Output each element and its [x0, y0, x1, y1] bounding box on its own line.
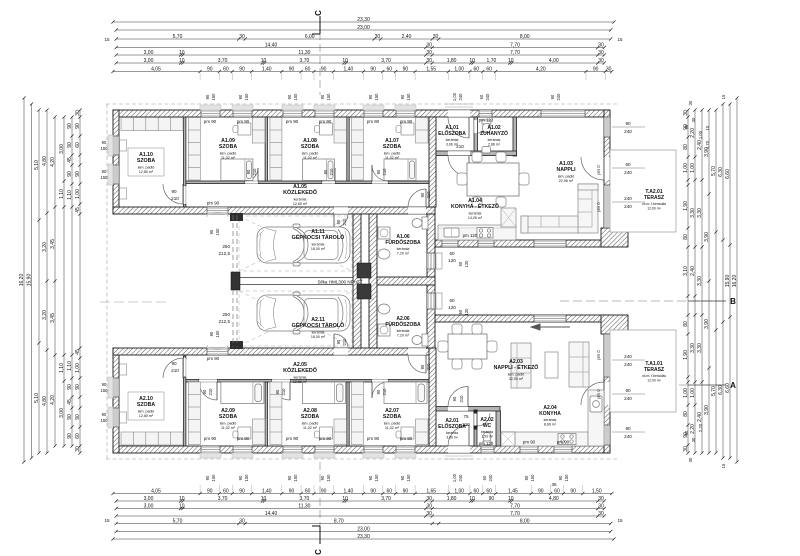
- section marker C top: [312, 10, 323, 34]
- svg-text:30: 30: [691, 117, 696, 122]
- furniture: dining chair A1 5: [457, 173, 467, 185]
- terrace T.A1.01 callout lines: [612, 360, 645, 394]
- wall: A2.07-A2.01 partition thick: [429, 348, 436, 446]
- svg-text:60: 60: [482, 475, 487, 480]
- door opening: A2.09 door: [199, 380, 217, 383]
- right wall lower window callout line: [612, 431, 645, 433]
- door opening: A1.01 entry: [448, 110, 470, 117]
- window: A1.03 right wall large window: [604, 185, 610, 228]
- svg-text:12,80 m²: 12,80 m²: [139, 170, 154, 174]
- svg-text:10: 10: [469, 496, 475, 502]
- svg-text:3,45: 3,45: [50, 239, 56, 249]
- svg-text:18,00 m²: 18,00 m²: [311, 247, 326, 251]
- door arc: garage A1.11 door: [334, 214, 348, 228]
- door arc: A2.02 WC door: [477, 413, 490, 426]
- svg-text:60: 60: [387, 66, 393, 72]
- window: courtyard west wall window 2: [427, 293, 435, 309]
- furniture: tall cabinet/fridge A1.04: [501, 208, 516, 227]
- svg-text:75: 75: [463, 414, 469, 419]
- svg-text:90: 90: [320, 475, 325, 480]
- wall: A1.08|A1.07 partition: [347, 117, 349, 183]
- svg-text:3,20: 3,20: [42, 310, 48, 320]
- svg-text:90: 90: [238, 94, 243, 99]
- svg-text:60: 60: [479, 94, 484, 99]
- svg-text:pm 0: pm 0: [596, 202, 601, 212]
- svg-text:90: 90: [171, 189, 177, 194]
- room label A2.01 ELOSZOBA: [438, 418, 466, 439]
- svg-text:1,00: 1,00: [690, 388, 696, 398]
- svg-text:210: 210: [208, 388, 213, 396]
- svg-text:90: 90: [625, 426, 631, 431]
- door opening: A1.10 door: [184, 186, 186, 204]
- svg-text:90: 90: [239, 66, 245, 72]
- svg-text:90: 90: [400, 475, 405, 480]
- svg-text:8,00: 8,00: [520, 34, 530, 40]
- svg-text:1,00: 1,00: [690, 163, 696, 173]
- svg-text:16,20: 16,20: [19, 274, 25, 287]
- wall stub below WC door: [474, 426, 478, 430]
- sill: top wall bedroom window 5: [363, 105, 384, 110]
- svg-text:60: 60: [486, 66, 492, 72]
- room label A1.09 SZOBA: [219, 138, 237, 160]
- svg-text:30: 30: [426, 50, 432, 56]
- furniture: cabinet A1.10 left 1: [120, 140, 127, 151]
- svg-text:3,30: 3,30: [697, 343, 703, 353]
- svg-text:150: 150: [101, 388, 109, 393]
- svg-text:lam. padló: lam. padló: [384, 151, 401, 155]
- door opening: A1.06 bathroom door: [408, 207, 426, 214]
- svg-text:16,20: 16,20: [732, 275, 738, 288]
- wall: A2.09|A2.08 partition: [265, 380, 267, 446]
- wall: A2 unit north wall east part: [435, 315, 609, 322]
- svg-text:4,20: 4,20: [50, 157, 56, 167]
- svg-text:A1.05: A1.05: [293, 184, 307, 190]
- svg-text:60: 60: [223, 488, 229, 494]
- svg-text:210: 210: [426, 191, 431, 199]
- svg-text:150: 150: [244, 93, 249, 101]
- sill: bottom wall bedroom window 2: [232, 453, 253, 458]
- svg-text:60: 60: [458, 261, 463, 266]
- svg-text:1,10: 1,10: [59, 363, 65, 373]
- svg-text:lam. padló: lam. padló: [302, 421, 319, 425]
- wall: garage/corridor south wall: [113, 348, 435, 355]
- svg-text:30: 30: [433, 34, 439, 40]
- dimension row bottom 14,40/7,70: [115, 511, 606, 518]
- furniture: wardrobe column A1.09: [188, 118, 200, 181]
- svg-text:3,00: 3,00: [59, 144, 65, 154]
- svg-text:11,30: 11,30: [298, 503, 310, 509]
- furniture: wardrobe column A2.09: [188, 382, 200, 445]
- svg-text:240: 240: [624, 196, 632, 201]
- svg-text:150: 150: [101, 146, 109, 151]
- svg-text:kerámia: kerámia: [294, 376, 307, 380]
- svg-text:2,20: 2,20: [690, 424, 696, 434]
- door arc: A2.07 door: [372, 382, 388, 398]
- window: A1.04 kitchen window 2: [478, 240, 494, 247]
- door opening: A2.06 bathroom door: [408, 348, 426, 355]
- svg-text:60: 60: [449, 251, 455, 256]
- svg-text:3,30: 3,30: [697, 208, 703, 218]
- svg-text:150: 150: [215, 330, 220, 338]
- svg-text:90: 90: [336, 219, 341, 224]
- svg-text:60: 60: [625, 162, 631, 167]
- furniture: wardrobe column A2.08: [270, 382, 282, 445]
- svg-text:60: 60: [486, 488, 492, 494]
- svg-text:A1.09: A1.09: [221, 138, 235, 144]
- furniture: desk A2.08: [315, 427, 333, 439]
- svg-text:12,60 m²: 12,60 m²: [293, 380, 308, 384]
- fixture: stove A1.04: [477, 228, 493, 239]
- furniture: cabinet A2.10 left 2: [120, 412, 127, 423]
- door arc: A1.08 door: [322, 168, 335, 181]
- dimension row top 23,30: [111, 17, 615, 24]
- window: A2.04 kitchen window 1: [520, 446, 538, 453]
- witness lines above bottom fine dim row: [200, 485, 583, 492]
- window: top wall bedroom window 4: [315, 110, 334, 117]
- svg-text:A2.08: A2.08: [303, 408, 317, 414]
- door opening: garage A2.11 door: [334, 348, 348, 355]
- furniture: tall cabinet A2.09: [252, 419, 265, 445]
- svg-text:90: 90: [593, 66, 599, 72]
- dimension row top 14,40/30/7,70/30: [115, 42, 606, 49]
- room label A1.11 GEPKOCSI TAROLO: [292, 229, 345, 251]
- door opening: garage A1.11 door: [334, 207, 348, 214]
- svg-text:210: 210: [329, 168, 334, 176]
- svg-text:30: 30: [598, 50, 604, 56]
- svg-text:4,05: 4,05: [151, 66, 161, 72]
- svg-text:210: 210: [342, 338, 347, 346]
- svg-text:45: 45: [67, 399, 73, 405]
- svg-text:8,00: 8,00: [520, 518, 530, 524]
- svg-text:90: 90: [684, 124, 689, 129]
- door arc: A2.08 door: [272, 382, 290, 400]
- svg-text:A1.11: A1.11: [311, 229, 325, 235]
- svg-text:30: 30: [683, 110, 689, 116]
- svg-text:1,10: 1,10: [67, 190, 73, 200]
- svg-text:90: 90: [336, 339, 341, 344]
- room label A2.05 KOZLEKEDO: [283, 362, 317, 384]
- svg-text:1,00: 1,00: [683, 163, 689, 173]
- car in garage A2.11: [257, 292, 350, 334]
- room label A2.04 KONYHA: [539, 405, 561, 426]
- dimension row bottom 3,00/10/11,30: [115, 503, 606, 510]
- wall: left exterior lower: [113, 348, 119, 453]
- room label A2.08 SZOBA: [301, 408, 319, 430]
- window: corridor A2.05 window: [207, 348, 228, 355]
- svg-text:4,80: 4,80: [42, 156, 48, 166]
- svg-text:KÖZLEKEDŐ: KÖZLEKEDŐ: [283, 189, 317, 196]
- wall: Silka HML300 divider between garages: [240, 278, 353, 285]
- window: top wall bedroom window 3: [283, 110, 302, 117]
- furniture: desk A1.08: [315, 123, 333, 135]
- svg-text:60: 60: [449, 298, 455, 303]
- svg-text:90: 90: [75, 414, 81, 420]
- svg-text:90: 90: [684, 430, 689, 435]
- fixture: toilet A2.02: [483, 432, 491, 445]
- wall: right exterior upper: [604, 110, 610, 247]
- svg-text:210: 210: [459, 395, 464, 403]
- svg-text:pm 90: pm 90: [367, 436, 380, 441]
- svg-text:150: 150: [101, 175, 109, 180]
- svg-text:SZOBA: SZOBA: [383, 414, 401, 420]
- window: A1.04 kitchen window 1: [442, 240, 458, 247]
- svg-text:1,00: 1,00: [452, 473, 457, 482]
- svg-text:lam. padló: lam. padló: [220, 151, 237, 155]
- door opening: A1.01 to kitchen: [448, 151, 470, 156]
- svg-text:212,5: 212,5: [219, 319, 231, 324]
- garage door A2.11 dashed: [233, 290, 237, 347]
- svg-text:90: 90: [570, 488, 576, 494]
- svg-text:lam. padló: lam. padló: [138, 165, 155, 169]
- furniture: coffee table A2.03: [545, 352, 558, 378]
- svg-text:90: 90: [376, 169, 381, 174]
- door opening: A1.08 door: [322, 181, 335, 184]
- svg-text:3,00: 3,00: [144, 496, 154, 502]
- svg-text:90: 90: [452, 396, 457, 401]
- wall: A1 rooms-corridor seg1: [186, 181, 245, 184]
- furniture: tall cabinet A1.09: [252, 118, 265, 144]
- svg-text:3,30: 3,30: [690, 343, 696, 353]
- dimension col right 3,90: [704, 108, 711, 454]
- door arc: garage A2.11 door: [334, 334, 348, 348]
- door arc: A1.07 door: [372, 165, 388, 181]
- svg-text:1,00: 1,00: [683, 388, 689, 398]
- svg-text:pm 90: pm 90: [286, 119, 299, 124]
- svg-text:90: 90: [75, 384, 81, 390]
- svg-text:240: 240: [624, 354, 632, 359]
- svg-text:10: 10: [261, 58, 267, 64]
- dimension col left 15,90 outer: [26, 102, 33, 459]
- room label A1.04 KONYHA-ETKEZO: [451, 198, 499, 220]
- svg-text:90: 90: [538, 488, 544, 494]
- wall: A2 rooms-corridor seg2: [217, 380, 272, 383]
- svg-text:A2.10: A2.10: [139, 396, 153, 402]
- svg-text:7,20 m²: 7,20 m²: [397, 251, 410, 255]
- window: left wall A1.10 window 1: [113, 136, 119, 155]
- svg-text:WC: WC: [483, 423, 492, 429]
- svg-text:1,55: 1,55: [426, 66, 436, 72]
- svg-text:120: 120: [464, 308, 469, 316]
- dimension row bottom 3,00/10/3,70 x3 etc: [115, 496, 606, 503]
- dimension col left 16,20: [19, 96, 26, 463]
- svg-text:15: 15: [104, 518, 110, 523]
- svg-text:90: 90: [524, 475, 529, 480]
- svg-text:GÉPKOCSI TÁROLÓ: GÉPKOCSI TÁROLÓ: [292, 233, 345, 241]
- svg-text:30: 30: [426, 503, 432, 509]
- svg-text:60: 60: [223, 66, 229, 72]
- svg-text:150: 150: [101, 418, 109, 423]
- svg-text:lam. padló: lam. padló: [558, 174, 575, 178]
- svg-text:150: 150: [530, 474, 535, 482]
- dimension row bottom fine windows: [111, 488, 613, 495]
- sill: bottom wall bedroom window 1: [200, 453, 221, 458]
- svg-text:12,80 m²: 12,80 m²: [139, 414, 154, 418]
- fixture: toilet A2.06: [412, 334, 428, 346]
- svg-text:212,5: 212,5: [219, 251, 231, 256]
- svg-text:NAPPLI - ÉTKEZŐ: NAPPLI - ÉTKEZŐ: [494, 363, 539, 371]
- svg-text:5,10: 5,10: [34, 160, 40, 170]
- svg-text:60: 60: [75, 433, 81, 439]
- room label T.A1.01 TERASZ: [642, 361, 666, 382]
- svg-text:1,00: 1,00: [454, 488, 464, 494]
- section line B: [560, 297, 736, 306]
- door arc: A2.01 entry door: [448, 425, 469, 446]
- svg-text:A1.10: A1.10: [139, 152, 153, 158]
- furniture: sofa A2.03 no2: [569, 342, 589, 387]
- terrace T.A1.01 outline: [610, 330, 676, 412]
- dimension col left 4,20: [50, 115, 57, 447]
- door arc: A2.01 to living: [448, 387, 468, 407]
- svg-text:32,00 m²: 32,00 m²: [509, 377, 524, 381]
- svg-text:3,90: 3,90: [704, 232, 710, 242]
- svg-text:90: 90: [420, 364, 425, 369]
- svg-text:10: 10: [342, 496, 348, 502]
- window: left wall A2.10 window 1: [113, 378, 119, 397]
- sill: top wall bedroom window 6: [395, 105, 416, 110]
- room label A1.01 ELOSZOBA: [438, 125, 466, 146]
- svg-text:15: 15: [721, 463, 726, 468]
- svg-text:3,30: 3,30: [690, 208, 696, 218]
- svg-text:pm 90: pm 90: [237, 436, 250, 441]
- svg-text:4,00: 4,00: [549, 58, 559, 64]
- garage door A1.11 dashed: [233, 215, 237, 272]
- svg-text:pm 90: pm 90: [204, 119, 217, 124]
- svg-text:A2.11: A2.11: [311, 317, 325, 323]
- svg-text:A1.08: A1.08: [303, 138, 317, 144]
- svg-text:30: 30: [75, 110, 81, 116]
- svg-text:90: 90: [67, 171, 73, 177]
- furniture: dining chair A2 5: [438, 341, 448, 352]
- svg-text:90: 90: [238, 475, 243, 480]
- wall stub above WC door: [474, 410, 478, 414]
- svg-text:90: 90: [275, 389, 280, 394]
- svg-text:240: 240: [458, 474, 463, 482]
- sill: corridor A2.05 window: [207, 345, 228, 349]
- svg-text:FÜRDŐSZOBA: FÜRDŐSZOBA: [385, 239, 421, 246]
- wall: A2 rooms-corridor seg3: [290, 380, 372, 383]
- roof overhang dashed outline: [106, 104, 617, 459]
- svg-text:210: 210: [382, 168, 387, 176]
- svg-text:90: 90: [625, 121, 631, 126]
- svg-text:210: 210: [426, 363, 431, 371]
- svg-text:90: 90: [368, 475, 373, 480]
- furniture: dining table A2.03: [448, 334, 487, 359]
- window: A2.03 north window large: [534, 315, 566, 322]
- svg-text:pm 90: pm 90: [319, 119, 332, 124]
- svg-text:pm 120: pm 120: [479, 441, 494, 446]
- svg-text:240: 240: [624, 434, 632, 439]
- svg-text:SZOBA: SZOBA: [219, 144, 237, 150]
- dimension row bottom 5,70/30/8,70/8,00: [115, 518, 613, 525]
- svg-text:pm 90: pm 90: [319, 436, 332, 441]
- svg-text:45: 45: [75, 207, 81, 213]
- svg-text:60: 60: [458, 309, 463, 314]
- furniture: sofa A2.03 no1: [511, 343, 531, 388]
- pillar: garage door south: [230, 341, 243, 349]
- wall: A1.09|A1.08 partition: [265, 117, 267, 183]
- svg-text:90: 90: [289, 66, 295, 72]
- svg-text:1,00: 1,00: [75, 189, 81, 199]
- svg-text:10: 10: [179, 50, 185, 56]
- svg-text:90: 90: [420, 192, 425, 197]
- svg-text:210: 210: [171, 368, 179, 373]
- svg-text:11,02 m²: 11,02 m²: [303, 426, 318, 430]
- svg-text:15,90: 15,90: [26, 274, 32, 287]
- window: A2.03 right wall large window: [604, 334, 610, 377]
- svg-text:90: 90: [67, 384, 73, 390]
- svg-text:150: 150: [293, 93, 298, 101]
- svg-text:3,00: 3,00: [59, 408, 65, 418]
- svg-text:240: 240: [624, 129, 632, 134]
- svg-text:2,40: 2,40: [402, 34, 412, 40]
- svg-text:1,00: 1,00: [452, 92, 457, 101]
- sill: bottom wall bedroom window 6: [395, 453, 416, 458]
- svg-text:15: 15: [617, 518, 623, 523]
- svg-text:150: 150: [406, 93, 411, 101]
- window: A2.03 right wall small window: [604, 425, 610, 445]
- dimension col right 6,60: [725, 102, 732, 459]
- entrance arrow in courtyard: [531, 324, 570, 330]
- svg-text:120: 120: [448, 305, 456, 310]
- fixture: washer A1.06: [378, 227, 390, 239]
- svg-text:3,00: 3,00: [144, 503, 154, 509]
- door opening: A2.01 entry: [448, 446, 470, 453]
- svg-text:6,00: 6,00: [305, 34, 315, 40]
- svg-text:4,20: 4,20: [50, 395, 56, 405]
- sill: left wall A1.10 window 2: [108, 164, 113, 185]
- svg-text:SZOBA: SZOBA: [219, 414, 237, 420]
- wall: top exterior: [113, 110, 610, 117]
- svg-text:80: 80: [683, 144, 689, 150]
- sill: corridor A1.05 window: [207, 213, 228, 217]
- svg-text:lam. padló: lam. padló: [138, 409, 155, 413]
- window: A2.04 kitchen window 2: [554, 446, 572, 453]
- svg-text:lam. padló: lam. padló: [384, 421, 401, 425]
- window sill: courtyard window 1: [436, 253, 442, 269]
- svg-text:240: 240: [485, 93, 490, 101]
- window sill: courtyard window 2: [436, 293, 442, 309]
- svg-text:pm 90: pm 90: [237, 119, 250, 124]
- svg-text:250: 250: [222, 244, 230, 249]
- svg-text:NAPPLI: NAPPLI: [556, 167, 576, 173]
- dimension col left 3,00/1,10: [59, 115, 66, 447]
- svg-text:30: 30: [598, 496, 604, 502]
- svg-text:150: 150: [374, 93, 379, 101]
- svg-text:1,70: 1,70: [705, 140, 710, 149]
- svg-text:10: 10: [469, 58, 475, 64]
- svg-text:1,80: 1,80: [447, 496, 457, 502]
- dimension row bottom 23,00: [115, 526, 613, 533]
- svg-text:90: 90: [67, 414, 73, 420]
- svg-text:A1.07: A1.07: [385, 138, 399, 144]
- fixture: toilet A1.02: [482, 120, 491, 133]
- svg-text:30: 30: [426, 496, 432, 502]
- svg-text:SZOBA: SZOBA: [137, 402, 155, 408]
- room label A1.07 SZOBA: [383, 138, 401, 160]
- svg-text:90: 90: [202, 389, 207, 394]
- svg-text:30: 30: [75, 446, 81, 452]
- svg-text:210: 210: [382, 388, 387, 396]
- porch steps at A1 entry: [445, 104, 473, 107]
- room label A1.08 SZOBA: [301, 138, 319, 160]
- svg-text:pm 90: pm 90: [367, 119, 380, 124]
- fixture: washbasin A1.02: [482, 147, 491, 154]
- svg-text:pm 90: pm 90: [400, 119, 413, 124]
- svg-text:pm 90: pm 90: [523, 440, 536, 445]
- svg-text:90: 90: [370, 488, 376, 494]
- furniture: wardrobe column A1.08: [270, 118, 282, 181]
- sill: bottom wall bedroom window 4: [314, 453, 335, 458]
